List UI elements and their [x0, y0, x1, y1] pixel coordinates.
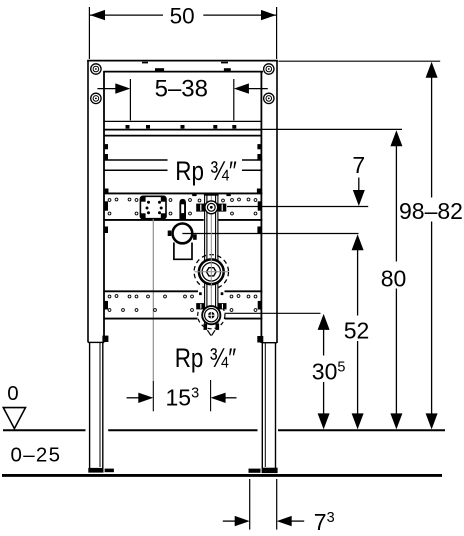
Rp 3/4 upper leader line top-right: [242, 159, 262, 161]
dimension 7.3 left arrow: [235, 516, 250, 526]
svg-text:Rp ¾″: Rp ¾″: [175, 156, 237, 186]
right column nub at 155: [257, 154, 260, 160]
dimension 80 top reference line: [262, 128, 402, 130]
right column outer edge: [276, 60, 278, 343]
drain right tab: [193, 234, 197, 240]
drain trap outline: [174, 243, 192, 260]
dimension 7.3 line right: [291, 520, 304, 522]
lower supply nut right: [218, 303, 227, 309]
screw top-right lower: [264, 93, 274, 103]
left column nub at 144: [105, 144, 108, 149]
right column end cap: [261, 342, 277, 344]
svg-text:52: 52: [344, 318, 370, 344]
dimension 7.3 line left: [223, 520, 236, 522]
pipe interior mask lower: [204, 285, 219, 323]
pipe centre line (grey): [210, 196, 212, 319]
lower water supply elbow: [202, 306, 220, 324]
upper supply nut right: [217, 204, 226, 212]
dimension 15.3 left arrow: [138, 393, 153, 403]
left column end cap: [88, 341, 104, 343]
lower rail clip right of pipe: [221, 292, 224, 295]
crossbar clip 4: [213, 125, 217, 129]
left column outer edge: [87, 60, 89, 342]
right column nub at 189: [257, 189, 261, 195]
crossbar clip 2: [146, 125, 150, 129]
right column bottom clamp: [257, 336, 263, 343]
dimension 7 arrow shaft: [358, 178, 360, 192]
crossbar upper thick line: [104, 129, 262, 131]
svg-text:80: 80: [381, 265, 407, 291]
dimension 30.5: [312, 314, 346, 430]
drain left tab: [168, 231, 172, 237]
plate leader line (grey): [152, 219, 154, 381]
dimension 50 left extension line: [88, 7, 90, 59]
left foot: [88, 468, 103, 473]
svg-text:0–25: 0–25: [11, 443, 62, 466]
upper rail clip right of pipe: [226, 193, 230, 196]
right column nub at 144: [257, 144, 260, 149]
svg-text:Rp ¾″: Rp ¾″: [175, 343, 237, 373]
top rail small mark left: [142, 62, 148, 64]
crossbar lower thick line: [104, 135, 262, 137]
crossbar thin line: [104, 120, 262, 122]
upper rail top edge: [104, 192, 263, 194]
drain holder slotted bracket: [179, 199, 186, 219]
level zero triangle: [3, 408, 25, 429]
dashed circle around flush fitting: [194, 255, 228, 289]
dimension 30.5 reference line: [225, 312, 321, 314]
dimension 50 line: [90, 14, 276, 16]
Rp 3/4 upper leader line bottom-left: [105, 169, 168, 171]
dimension 15.3 right extension line: [210, 380, 212, 411]
right leg: [262, 343, 275, 468]
Rp 3/4 upper leader line bottom-right: [242, 169, 262, 171]
supply pipe walls: [205, 195, 218, 323]
floor slab line: [2, 474, 442, 477]
dimension 50 left arrow: [90, 10, 105, 20]
dimension 7.3 right extension line: [276, 479, 278, 530]
dashed circle around lower supply: [198, 302, 225, 329]
dimension 50 right extension line: [276, 7, 278, 59]
frame top rail bottom edge: [104, 71, 264, 73]
left column bracket at 227: [105, 227, 109, 234]
top rail small mark right: [221, 62, 228, 64]
dimension 7 down arrow: [353, 190, 365, 206]
supply outlet spout: [204, 324, 220, 336]
dimension 15.3 line left: [127, 397, 140, 399]
lower rail right end tab: [258, 301, 262, 310]
screw top-left lower: [91, 93, 101, 103]
upper rail clip left of pipe: [192, 193, 196, 196]
Rp 3/4 upper leader line top-left: [105, 159, 168, 161]
dimension 7 reference line (supply axis): [227, 206, 368, 208]
pipe top cap: [204, 193, 219, 196]
lower rail dots: [108, 295, 257, 312]
screw top-right upper: [264, 64, 274, 74]
left column nub at 155: [105, 154, 108, 160]
dimension 15.3 line right: [225, 397, 237, 399]
flush fitting circles: [195, 255, 229, 289]
svg-text:0: 0: [7, 382, 18, 405]
lower supply nut left: [196, 303, 205, 309]
top rail clip right: [224, 68, 231, 71]
crossbar clip 3: [181, 125, 185, 129]
drain bend circle: [173, 224, 193, 244]
dimension 5-38 left extension line: [129, 79, 131, 120]
dimension 5-38 line right: [249, 88, 268, 90]
upper rail right end tab: [258, 201, 262, 210]
crossbar clip 5: [232, 125, 236, 129]
dimension 98-82 top reference line: [279, 60, 441, 62]
tap mounting plate: [140, 196, 166, 218]
upper rail dots: [108, 198, 257, 215]
frame top rail top edge: [87, 60, 278, 62]
dimension 7.3 left extension line: [249, 479, 251, 530]
right column bracket at 227: [257, 227, 261, 234]
right foot: [262, 468, 278, 473]
svg-text:5–38: 5–38: [155, 75, 208, 102]
right column inner edge: [260, 71, 262, 343]
svg-text:50: 50: [170, 3, 195, 28]
finished floor line: [3, 429, 445, 431]
dimension 50 right arrow: [261, 10, 276, 20]
svg-text:98–82: 98–82: [399, 198, 463, 224]
left column nub at 189: [105, 189, 109, 195]
upper rail bottom edge: [104, 219, 263, 221]
lower rail top edge: [104, 290, 263, 292]
dimension 5-38 left arrow: [115, 83, 130, 93]
lower rail clip left of pipe: [199, 292, 202, 295]
dimension 52: [344, 234, 370, 429]
upper water supply fitting: [205, 201, 218, 214]
dimension 5-38 line left: [97, 88, 116, 90]
left leg: [90, 342, 103, 468]
dimension 7.3 right arrow: [277, 516, 292, 526]
screw top-left upper: [91, 64, 101, 74]
left column inner edge: [103, 71, 105, 342]
upper rail left end tab: [104, 201, 108, 210]
dimension 98-82: [399, 62, 463, 430]
left column bottom clamp: [102, 336, 108, 342]
lower rail left end tab: [104, 301, 108, 310]
dimension 80: [381, 130, 407, 429]
lower rail bottom edge: [104, 318, 263, 320]
dimension 52 reference line from drain center: [182, 233, 358, 235]
dimension 5-38 right extension line: [233, 79, 235, 120]
top rail clip left: [155, 68, 164, 71]
svg-text:7: 7: [352, 152, 365, 178]
dimension 5-38 right arrow: [234, 83, 249, 93]
crossbar clip 1: [126, 125, 130, 129]
upper supply nut left: [196, 204, 205, 212]
pipe interior mask upper: [204, 195, 219, 222]
dimension 15.3 right arrow: [211, 393, 226, 403]
